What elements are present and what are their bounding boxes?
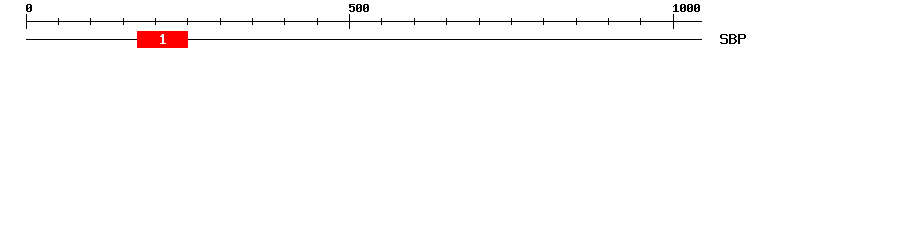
minor tick 950 [640,18,641,25]
ruler baseline [26,21,702,22]
feature label "1" [160,34,166,44]
minor tick 700 [479,18,480,25]
minor tick 650 [446,18,447,25]
minor tick 200 [155,18,156,25]
minor tick 300 [220,18,221,25]
minor tick 50 [58,18,59,25]
track label "SBP" [720,34,746,44]
minor tick 900 [608,18,609,25]
background [0,0,900,58]
minor tick 150 [123,18,124,25]
minor tick 850 [576,18,577,25]
minor tick 400 [284,18,285,25]
minor tick 100 [90,18,91,25]
minor tick 600 [414,18,415,25]
tick label "1000" [673,4,700,12]
sequence line [26,39,702,40]
major tick 500 [349,14,350,29]
minor tick 750 [511,18,512,25]
tick label "0" [26,4,32,12]
major tick 1000 [673,14,674,29]
minor tick 250 [187,18,188,25]
major tick 0 [26,14,27,29]
minor tick 350 [252,18,253,25]
minor tick 450 [317,18,318,25]
feature box 1 (red) [137,31,188,48]
tick label "500" [349,4,369,12]
minor tick 800 [543,18,544,25]
minor tick 550 [381,18,382,25]
